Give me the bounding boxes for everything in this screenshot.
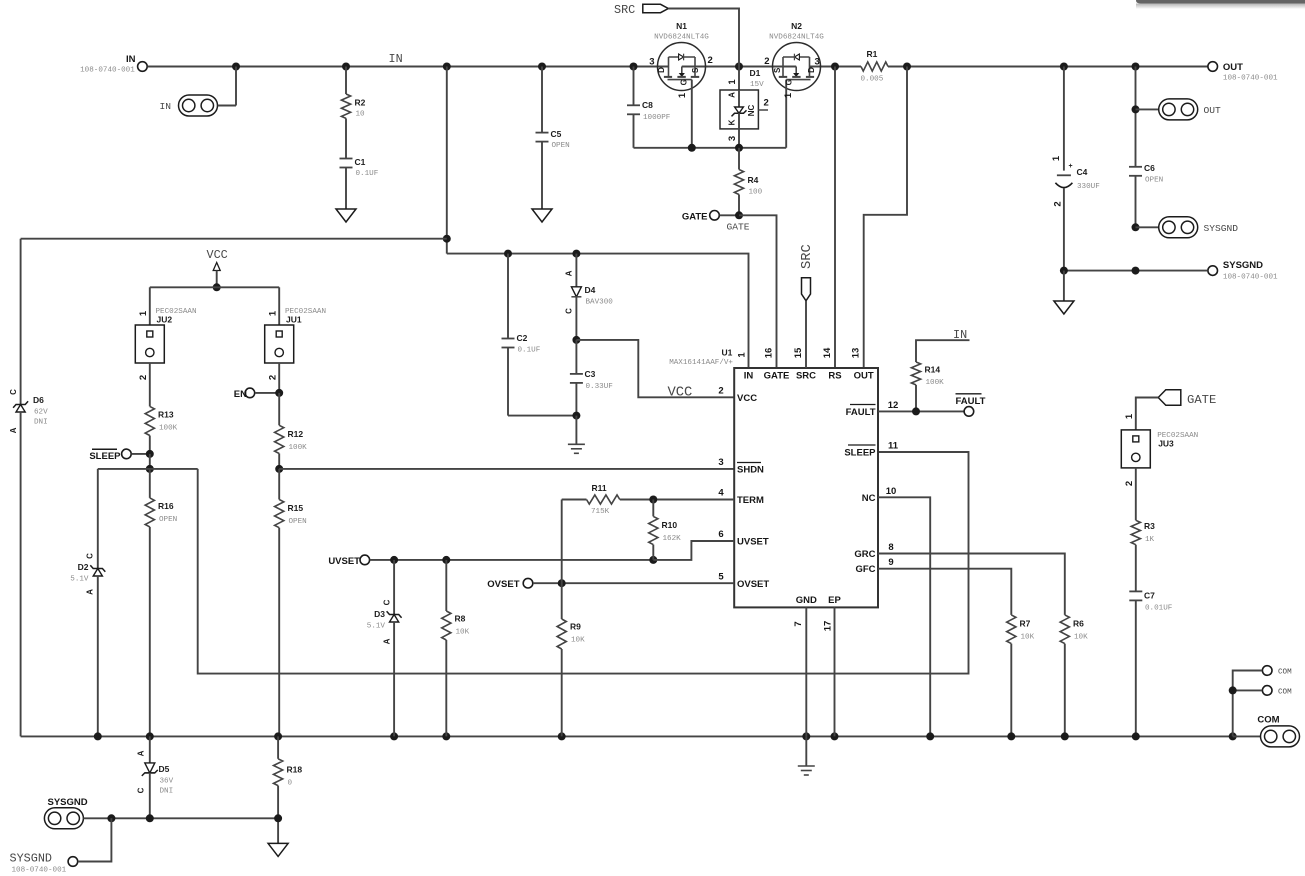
svg-text:NC: NC: [747, 105, 756, 117]
jumper JU3 PEC02SAAN: [1121, 430, 1150, 468]
svg-text:2: 2: [718, 386, 723, 397]
svg-text:TERM: TERM: [737, 495, 764, 506]
resistor R13: [145, 406, 154, 435]
svg-text:SYSGND: SYSGND: [1204, 223, 1239, 234]
terminal OVSET: [523, 578, 533, 588]
svg-text:2: 2: [138, 375, 149, 380]
svg-text:R15: R15: [288, 503, 304, 513]
terminal SYSGND 108-0740-001: [1208, 266, 1218, 276]
terminal SYSGND 108-0740-001 bottom: [68, 857, 78, 867]
wire IN rail: [148, 66, 669, 68]
svg-text:14: 14: [822, 347, 833, 358]
svg-text:100K: 100K: [289, 444, 308, 452]
svg-text:C: C: [9, 389, 18, 395]
svg-text:C7: C7: [1144, 591, 1155, 601]
svg-text:0.33UF: 0.33UF: [586, 383, 614, 391]
svg-text:2: 2: [1124, 481, 1135, 486]
capacitor C3: [575, 340, 577, 374]
svg-text:5: 5: [718, 571, 724, 582]
jack IN: [179, 95, 218, 116]
svg-text:15: 15: [793, 347, 804, 358]
svg-text:OVSET: OVSET: [737, 579, 769, 590]
svg-text:1: 1: [677, 92, 688, 98]
svg-text:16: 16: [763, 348, 774, 359]
svg-text:10K: 10K: [456, 629, 470, 637]
svg-text:A: A: [9, 427, 18, 433]
svg-text:+: +: [1068, 163, 1072, 170]
capacitor C1: [340, 158, 353, 160]
capacitor C5: [541, 67, 543, 133]
svg-text:R2: R2: [355, 98, 366, 108]
svg-text:3: 3: [718, 457, 723, 468]
svg-text:JU2: JU2: [157, 315, 173, 325]
wire IN to C2/D4/U1 pin1: [447, 254, 749, 368]
svg-text:U1: U1: [722, 348, 733, 358]
svg-text:COM: COM: [1278, 689, 1292, 697]
wire GND pin 7: [805, 607, 807, 736]
wire SYSGND row: [1064, 270, 1208, 272]
resistor R16 OPEN: [145, 498, 154, 527]
ground below C1: [336, 209, 356, 222]
wire OUT branch to pin 13: [864, 67, 907, 369]
wire FAULT pin 12: [878, 410, 964, 412]
svg-text:NVD6824NLT4G: NVD6824NLT4G: [654, 34, 709, 42]
svg-text:SRC: SRC: [800, 244, 815, 269]
svg-text:A: A: [86, 589, 95, 595]
svg-text:GATE: GATE: [682, 212, 708, 223]
svg-text:BAV300: BAV300: [586, 299, 614, 307]
svg-text:12: 12: [888, 400, 899, 411]
svg-text:108-0740-001: 108-0740-001: [12, 867, 67, 875]
svg-text:OUT: OUT: [1223, 62, 1243, 73]
diode D3 5.1V: [393, 560, 395, 615]
svg-text:N1: N1: [676, 21, 687, 31]
svg-text:D4: D4: [585, 285, 596, 295]
svg-text:OPEN: OPEN: [552, 142, 570, 150]
svg-text:10K: 10K: [1021, 634, 1035, 642]
svg-text:VCC: VCC: [668, 386, 693, 401]
resistor R11 715K: [562, 499, 587, 501]
svg-text:C8: C8: [642, 100, 653, 110]
wire common bottom rail: [21, 735, 1233, 737]
svg-text:IN: IN: [389, 52, 403, 66]
ground below R18: [268, 843, 288, 856]
wire SLEEP net long path to pin 11: [98, 468, 198, 470]
wire SRC flag to pin 15: [805, 301, 807, 368]
svg-text:JU1: JU1: [286, 315, 302, 325]
transistor N1 NVD6824NLT4G: [658, 43, 706, 91]
jack OUT: [1135, 67, 1137, 167]
resistor R15 OPEN: [278, 469, 280, 500]
svg-text:IN: IN: [126, 54, 136, 65]
svg-text:108-0740-001: 108-0740-001: [80, 67, 135, 75]
svg-text:SHDN: SHDN: [737, 465, 764, 476]
svg-text:0.01UF: 0.01UF: [1145, 605, 1173, 613]
svg-text:2: 2: [764, 98, 769, 109]
svg-text:36V: 36V: [160, 778, 174, 786]
svg-text:C2: C2: [517, 333, 528, 343]
svg-text:GATE: GATE: [1187, 393, 1216, 407]
svg-text:2: 2: [1053, 201, 1064, 206]
svg-text:OVSET: OVSET: [487, 579, 519, 590]
svg-text:1: 1: [727, 79, 738, 85]
wire C2/C3 ground: [508, 415, 576, 417]
wire GATE net: [720, 214, 740, 216]
transistor N2 NVD6824NLT4G: [773, 43, 821, 91]
svg-text:10K: 10K: [1074, 634, 1088, 642]
svg-text:G: G: [784, 79, 793, 85]
svg-text:108-0740-001: 108-0740-001: [1223, 274, 1278, 282]
svg-text:8: 8: [888, 542, 893, 553]
svg-text:R18: R18: [287, 765, 303, 775]
svg-text:2: 2: [708, 55, 713, 66]
svg-text:D5: D5: [159, 764, 170, 774]
svg-text:D1: D1: [750, 68, 761, 78]
resistor R4: [738, 148, 740, 170]
svg-text:715K: 715K: [591, 508, 610, 516]
svg-text:6: 6: [718, 529, 723, 540]
svg-text:1: 1: [783, 92, 794, 98]
jack SYSGND right: [1132, 223, 1140, 231]
svg-text:C: C: [565, 308, 574, 314]
svg-text:162K: 162K: [663, 535, 682, 543]
svg-text:K: K: [728, 119, 737, 125]
svg-text:C3: C3: [585, 369, 596, 379]
wire SRC to rail: [668, 9, 739, 67]
svg-text:S: S: [691, 67, 700, 73]
svg-text:MAX16141AAF/V+: MAX16141AAF/V+: [669, 359, 733, 367]
svg-text:62V: 62V: [34, 409, 48, 417]
svg-text:1: 1: [138, 310, 149, 316]
svg-text:108-0740-001: 108-0740-001: [1223, 75, 1278, 83]
svg-text:A: A: [137, 750, 146, 756]
terminal COM upper: [1262, 666, 1272, 676]
resistor R2: [345, 67, 347, 95]
svg-text:R8: R8: [455, 614, 466, 624]
jumper JU2 PEC02SAAN: [149, 287, 151, 325]
terminal GATE: [710, 211, 720, 221]
svg-text:OUT: OUT: [1204, 105, 1222, 116]
svg-text:9: 9: [888, 557, 893, 568]
terminal FAULT: [964, 407, 974, 417]
net flag GATE right: [1158, 390, 1181, 406]
svg-text:D: D: [807, 67, 816, 73]
jumper JU1 PEC02SAAN: [278, 287, 280, 325]
svg-text:GND: GND: [796, 595, 817, 606]
svg-text:SYSGND: SYSGND: [48, 797, 88, 808]
svg-text:OPEN: OPEN: [159, 516, 177, 524]
svg-text:R12: R12: [288, 429, 304, 439]
svg-text:13: 13: [851, 348, 862, 359]
terminal IN 108-0740-001: [138, 62, 148, 72]
svg-text:C6: C6: [1144, 163, 1155, 173]
svg-text:COM: COM: [1257, 715, 1279, 726]
wire COM branch: [1233, 671, 1263, 737]
svg-text:R16: R16: [158, 501, 174, 511]
svg-text:UVSET: UVSET: [328, 556, 360, 567]
svg-text:0.005: 0.005: [861, 76, 884, 84]
diode D4 BAV300: [575, 254, 577, 287]
svg-text:C: C: [383, 599, 392, 605]
svg-text:SRC: SRC: [614, 3, 635, 17]
svg-text:OUT: OUT: [854, 371, 874, 382]
svg-text:VCC: VCC: [737, 393, 757, 404]
svg-text:OPEN: OPEN: [1145, 177, 1163, 185]
wire IN branch left loop: [446, 67, 448, 254]
svg-text:0: 0: [288, 780, 293, 788]
wire R11/R9 column: [561, 500, 563, 620]
svg-text:VCC: VCC: [207, 248, 228, 262]
svg-text:SRC: SRC: [796, 371, 816, 382]
net flag SRC top: [643, 4, 669, 12]
svg-text:C: C: [137, 787, 146, 793]
svg-text:100K: 100K: [159, 425, 178, 433]
wire SLEEP junctions: [131, 453, 149, 455]
wire EN junction: [255, 392, 279, 394]
svg-text:R4: R4: [748, 175, 759, 185]
terminal OUT 108-0740-001: [1208, 62, 1218, 72]
svg-text:FAULT: FAULT: [956, 396, 986, 407]
svg-text:D2: D2: [78, 562, 89, 572]
op-amp U1 MAX16141AAF/V+: [734, 368, 878, 607]
capacitor C2: [507, 254, 509, 339]
resistor R6 10K: [1060, 615, 1069, 644]
terminal COM lower: [1262, 686, 1272, 696]
svg-text:FAULT: FAULT: [846, 407, 876, 418]
svg-text:GRC: GRC: [854, 549, 875, 560]
svg-text:GFC: GFC: [855, 564, 875, 575]
wire VCC to JU2/JU1: [150, 286, 279, 288]
svg-text:JU3: JU3: [1158, 439, 1174, 449]
svg-text:R7: R7: [1020, 619, 1031, 629]
svg-text:DNI: DNI: [34, 419, 48, 427]
resistor R12: [278, 393, 280, 425]
svg-text:4: 4: [718, 488, 724, 499]
svg-text:5.1V: 5.1V: [70, 576, 89, 584]
svg-text:0.1UF: 0.1UF: [356, 170, 379, 178]
svg-text:NVD6824NLT4G: NVD6824NLT4G: [769, 34, 824, 42]
svg-text:3: 3: [727, 136, 738, 141]
ground below C5: [532, 209, 552, 222]
svg-text:0.1UF: 0.1UF: [518, 347, 541, 355]
svg-text:R11: R11: [592, 483, 607, 493]
wire RS sense down to pin 14: [834, 67, 836, 369]
svg-text:SLEEP: SLEEP: [844, 448, 876, 459]
svg-text:DNI: DNI: [160, 788, 174, 796]
svg-text:100: 100: [749, 189, 763, 197]
svg-text:D6: D6: [33, 395, 44, 405]
svg-text:11: 11: [888, 441, 899, 452]
svg-text:1: 1: [1051, 155, 1062, 161]
wire SYSGND row bottom: [83, 817, 278, 819]
svg-text:A: A: [565, 270, 574, 276]
svg-text:10K: 10K: [571, 637, 585, 645]
svg-text:330UF: 330UF: [1077, 183, 1100, 191]
diode D1 15V: [738, 67, 740, 91]
svg-text:IN: IN: [160, 101, 172, 112]
earth ground below rail: [805, 736, 807, 766]
diode D6 62V DNI: [20, 239, 22, 405]
svg-text:A: A: [383, 638, 392, 644]
svg-text:10: 10: [356, 111, 366, 119]
resistor R9 10K: [557, 619, 566, 649]
diode D5 36V DNI: [149, 736, 151, 763]
capacitor C7 0.01UF: [1129, 590, 1142, 592]
svg-text:IN: IN: [744, 371, 754, 382]
svg-text:2: 2: [268, 375, 279, 380]
resistor R7 10K: [1007, 615, 1016, 644]
svg-text:C4: C4: [1077, 167, 1088, 177]
svg-text:RS: RS: [828, 371, 841, 382]
svg-text:R6: R6: [1073, 619, 1084, 629]
svg-text:R14: R14: [925, 365, 941, 375]
resistor R1: [861, 62, 888, 71]
svg-text:SLEEP: SLEEP: [89, 451, 121, 462]
svg-text:EN: EN: [234, 389, 247, 400]
svg-text:N2: N2: [791, 21, 802, 31]
svg-text:1: 1: [736, 352, 747, 358]
wire SHDN net to pin 3: [275, 465, 283, 473]
svg-text:GATE: GATE: [727, 222, 750, 233]
wire gate bus under N1/N2: [634, 147, 787, 149]
svg-text:COM: COM: [1278, 669, 1292, 677]
svg-text:1: 1: [268, 310, 279, 316]
wire NC pin 10: [878, 497, 930, 736]
svg-text:OPEN: OPEN: [289, 518, 307, 526]
earth ground below C3: [568, 443, 585, 445]
wire GRC pin 8 to R6: [878, 554, 1065, 615]
wire VCC to pin 2: [572, 336, 580, 344]
svg-text:R1: R1: [867, 49, 878, 59]
svg-text:G: G: [680, 79, 689, 85]
resistor R18 0: [277, 736, 279, 758]
svg-text:100K: 100K: [926, 379, 945, 387]
svg-text:UVSET: UVSET: [737, 537, 769, 548]
svg-text:2: 2: [764, 56, 769, 67]
svg-text:R13: R13: [158, 410, 174, 420]
svg-text:C: C: [86, 553, 95, 559]
wire EP pin 17: [834, 607, 836, 736]
svg-text:SYSGND: SYSGND: [10, 852, 52, 866]
jack COM: [1233, 735, 1261, 737]
svg-text:1: 1: [1124, 413, 1135, 419]
svg-text:17: 17: [823, 621, 834, 632]
svg-text:10: 10: [886, 486, 897, 497]
diode D2 5.1V: [97, 469, 99, 569]
svg-text:A: A: [728, 92, 737, 98]
svg-text:R9: R9: [570, 622, 581, 632]
svg-text:1000PF: 1000PF: [643, 114, 671, 122]
svg-text:5.1V: 5.1V: [367, 623, 386, 631]
svg-text:R3: R3: [1144, 521, 1155, 531]
svg-text:R10: R10: [662, 520, 678, 530]
terminal SLEEP: [122, 449, 132, 459]
wire GFC pin 9 to R7: [878, 569, 1011, 615]
wire UVSET net: [370, 559, 654, 561]
svg-text:7: 7: [793, 621, 804, 626]
jack SYSGND bottom: [44, 808, 83, 829]
resistor R10 162K: [652, 500, 654, 517]
net flag SRC vertical: [802, 278, 811, 301]
terminal UVSET: [360, 555, 370, 565]
svg-text:D: D: [657, 67, 666, 73]
svg-text:GATE: GATE: [764, 371, 790, 382]
svg-text:NC: NC: [862, 493, 876, 504]
capacitor C8: [633, 67, 635, 106]
resistor R3 1K: [1135, 468, 1137, 520]
svg-text:D3: D3: [374, 609, 385, 619]
capacitor C4 330UF: [1063, 67, 1065, 171]
wire OVSET net to pin 5: [533, 582, 734, 584]
svg-text:3: 3: [649, 57, 654, 68]
svg-text:EP: EP: [828, 595, 841, 606]
svg-text:SYSGND: SYSGND: [1223, 260, 1263, 271]
svg-text:S: S: [773, 67, 782, 73]
capacitor C6 OPEN: [1129, 166, 1142, 168]
wire GATE flag to JU3: [1136, 398, 1158, 430]
svg-text:C1: C1: [355, 157, 366, 167]
ground below C4: [1063, 271, 1065, 301]
terminal EN: [245, 388, 255, 398]
svg-text:1K: 1K: [1145, 536, 1155, 544]
svg-text:3: 3: [815, 57, 820, 68]
svg-text:15V: 15V: [750, 81, 764, 89]
resistor R8 10K: [445, 560, 447, 611]
svg-text:C5: C5: [551, 129, 562, 139]
